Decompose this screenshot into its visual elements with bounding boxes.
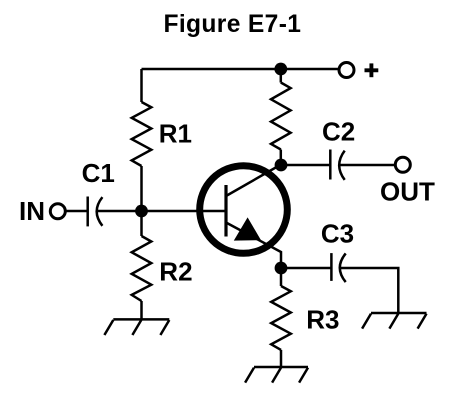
wire C2 to OUT terminal — [339, 164, 394, 167]
wire collector resistor to collector node — [280, 150, 283, 166]
node junction dot at top rail / collector branch — [274, 63, 287, 76]
wire collector node to C2 — [281, 164, 330, 167]
transistor emitter lead — [226, 223, 281, 269]
node base junction dot — [135, 205, 148, 218]
wire top rail from R1 branch to + terminal — [142, 68, 340, 71]
label + (plus sign) — [365, 63, 379, 77]
svg-text:R1: R1 — [159, 118, 192, 148]
transistor collector lead — [226, 165, 281, 197]
capacitor C2 — [330, 150, 344, 180]
wire C1 to base node — [97, 210, 142, 213]
svg-text:C2: C2 — [322, 116, 355, 146]
svg-text:Figure E7-1: Figure E7-1 — [164, 11, 302, 38]
terminal + (supply) circle — [339, 63, 354, 78]
wire collector branch from top dot to collector resistor — [280, 69, 283, 83]
capacitor C3 — [331, 253, 345, 282]
terminal OUT circle — [395, 157, 410, 172]
terminal IN circle — [50, 204, 65, 219]
ground below R2 — [104, 319, 169, 335]
svg-text:IN: IN — [19, 196, 45, 226]
wire IN terminal to C1 — [66, 210, 88, 213]
wire R1 bottom to base node — [140, 166, 143, 211]
node collector junction dot — [275, 159, 288, 172]
svg-text:OUT: OUT — [380, 176, 435, 206]
ground right of C3 — [362, 313, 426, 329]
ground below R3 — [245, 367, 308, 383]
wire R3 bottom to ground — [280, 350, 283, 367]
wire R1 branch vertical top — [140, 69, 143, 102]
transistor Q1 circle — [200, 166, 288, 254]
capacitor C1 — [88, 197, 103, 227]
wire C3 right to corner and down to ground — [340, 268, 398, 313]
node emitter junction dot — [275, 262, 288, 275]
wire emitter node down to R3 — [280, 268, 283, 286]
transistor base bar — [224, 185, 227, 237]
resistor R1 — [132, 102, 152, 166]
resistor R2 — [132, 236, 152, 301]
svg-text:R3: R3 — [306, 304, 339, 334]
resistor R3 — [271, 286, 291, 350]
svg-text:C3: C3 — [321, 219, 354, 249]
svg-text:C1: C1 — [82, 158, 115, 188]
wire base node down to R2 — [140, 211, 143, 236]
wire emitter node to C3 — [281, 267, 331, 270]
svg-text:R2: R2 — [159, 256, 192, 286]
transistor emitter arrow — [234, 217, 261, 240]
wire R2 bottom to ground — [140, 301, 143, 319]
resistor collector (unlabeled) — [271, 83, 291, 150]
wire base node to transistor base — [142, 210, 227, 213]
